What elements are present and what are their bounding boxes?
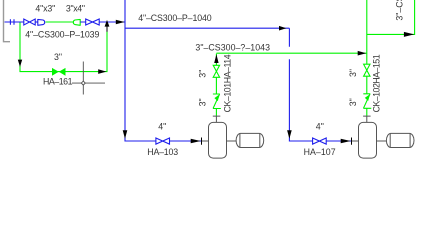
reducer 4"x3" (big end left) — [38, 19, 45, 26]
flow arrow right on 1043 — [358, 51, 367, 56]
svg-text:4": 4" — [316, 121, 324, 131]
valve HA-161 closed (filled) — [52, 68, 59, 76]
flow arrow down on bypass — [18, 60, 22, 67]
flow arrow down — [123, 130, 128, 139]
valve V2 open bowtie — [86, 19, 100, 25]
valve riser 1 hourglass — [213, 65, 219, 77]
vessel K-102 (blower) flange+stem — [363, 116, 371, 122]
vessel K-102 body — [359, 122, 377, 158]
svg-text:3"x4": 3"x4" — [66, 4, 85, 14]
node cross marker near HA-161 — [72, 62, 105, 95]
flow arrow right on branch — [404, 32, 414, 37]
flow arrow down — [287, 130, 292, 139]
border bracket (drawing frame edge, gray) — [4, 0, 11, 42]
check valve CK-102HA-151 — [363, 94, 371, 109]
wire riser train 2 green — [366, 0, 368, 116]
wire main 4" header blue left segment — [5, 21, 24, 23]
wire riser train 1 green — [215, 54, 217, 116]
valve HA-103 bowtie — [156, 138, 170, 144]
wire line 3"-CS300-?-1043 green — [216, 52, 366, 54]
svg-text:3"–CS300: 3"–CS300 — [395, 0, 405, 21]
flow arrow right end of 1040 — [279, 26, 286, 31]
flange pair ticks — [10, 19, 14, 25]
flow arrow into K-102 — [341, 139, 351, 144]
svg-text:3": 3" — [348, 69, 358, 77]
vessel K-101 body — [209, 122, 227, 158]
wire line 4"-CS300-P-1040 — [125, 27, 289, 29]
wire branch to header green: across and up — [367, 0, 415, 34]
svg-text:CK–102HA–151: CK–102HA–151 — [371, 54, 381, 112]
valve riser 2 hourglass — [364, 64, 370, 76]
wire vertical to HA-107 (gap at green crossing) — [289, 28, 351, 141]
check valve CK-101HA-114 — [213, 94, 221, 109]
reducer 3"x4" (big end right) — [73, 19, 80, 26]
svg-text:4"–CS300–P–1040: 4"–CS300–P–1040 — [138, 13, 212, 23]
motor K-102 — [352, 140, 387, 142]
svg-text:HA–161: HA–161 — [43, 76, 73, 86]
wire header vertical to HA-103 — [125, 0, 201, 141]
svg-text:4": 4" — [158, 121, 166, 131]
motor K-101 — [202, 140, 236, 142]
flow arrow into K-101 — [191, 139, 201, 144]
svg-text:3": 3" — [348, 98, 358, 106]
wire blue to header — [80, 21, 125, 23]
vessel K-101 (blower) flange+stem — [213, 116, 221, 122]
svg-text:HA–103: HA–103 — [147, 147, 178, 157]
flange tick K-101 nozzle — [201, 138, 203, 145]
svg-text:4"–CS300–P–1039: 4"–CS300–P–1039 — [25, 30, 99, 40]
svg-text:4"x3": 4"x3" — [35, 4, 55, 14]
valve HA-107 bowtie — [313, 138, 327, 144]
svg-text:3": 3" — [198, 98, 208, 106]
svg-text:CK–101HA–114: CK–101HA–114 — [222, 54, 232, 112]
flow arrow right on bypass — [98, 69, 106, 74]
wire bypass 3" green: down, across, up — [20, 23, 107, 72]
wire between valve and reducer — [35, 21, 38, 23]
flow arrow up (bypass merge) — [106, 22, 108, 32]
wire green 3" segment — [46, 21, 74, 23]
valve V1 open bowtie — [24, 19, 35, 25]
flange tick K-102 nozzle — [351, 138, 353, 145]
svg-text:3"–CS300–?–1043: 3"–CS300–?–1043 — [195, 42, 270, 52]
flow arrow right into header — [116, 20, 125, 25]
svg-text:3": 3" — [54, 52, 62, 62]
svg-text:3": 3" — [198, 70, 208, 78]
flow arrow up into 1043 — [214, 54, 218, 63]
svg-text:HA–107: HA–107 — [304, 147, 336, 157]
